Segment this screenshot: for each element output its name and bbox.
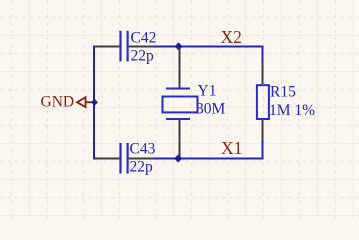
svg-text:R15: R15 [270, 84, 296, 101]
ground power port GND [77, 97, 92, 107]
svg-text:Y1: Y1 [198, 83, 217, 100]
svg-text:22p: 22p [130, 159, 154, 176]
svg-text:30M: 30M [196, 100, 226, 117]
wire: net X1 bottom horizontal and right riser [153, 140, 263, 159]
wire: left vertical net segment (GND side) [93, 46, 95, 160]
svg-text:C43: C43 [130, 141, 156, 158]
wire: top-left stub to C42 left pin [93, 46, 97, 48]
capacitor C42 [95, 31, 153, 62]
svg-text:X1: X1 [221, 138, 242, 158]
resistor R15 [257, 62, 269, 140]
svg-text:GND: GND [41, 94, 75, 111]
wire: net X2 top horizontal and right drop [153, 47, 263, 63]
capacitor C43 [95, 143, 153, 174]
crystal Y1 [163, 48, 198, 158]
svg-text:X2: X2 [221, 27, 242, 47]
junction at GND tap [91, 99, 98, 106]
svg-text:22p: 22p [131, 48, 155, 65]
junction at node X1 [174, 155, 182, 163]
wire: bottom-left stub to C43 left pin [93, 158, 97, 160]
svg-text:C42: C42 [131, 30, 157, 47]
svg-text:1M 1%: 1M 1% [269, 102, 315, 119]
junction at node X2 [175, 42, 183, 50]
